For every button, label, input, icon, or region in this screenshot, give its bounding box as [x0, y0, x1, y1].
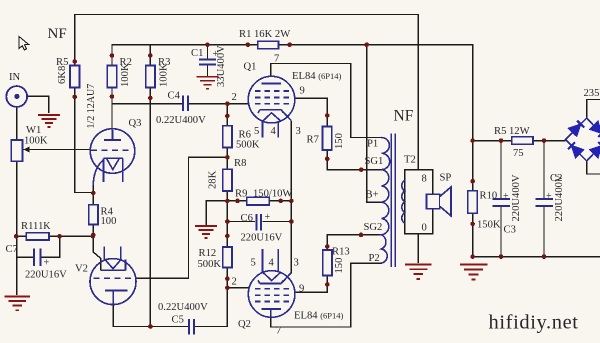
node R12 top pin — [225, 234, 230, 239]
pentode Q2 EL84 — [248, 249, 295, 317]
svg-text:9: 9 — [300, 86, 305, 97]
node ground rail C2 — [542, 254, 547, 259]
svg-text:150: 150 — [334, 133, 345, 149]
wire R5b left — [473, 140, 512, 142]
wire input jack to ground — [27, 96, 49, 113]
wire SG2 row to R13 top — [327, 235, 381, 250]
resistor R13 150 — [323, 250, 332, 276]
node V2 cathode junction — [91, 234, 96, 239]
resistor R3 100K — [146, 66, 155, 88]
wire Q1 plate pin7 to P1 — [271, 64, 382, 138]
wire R9 right pin — [269, 200, 291, 202]
node R13 top pin — [325, 244, 330, 249]
node C1 rail junction — [205, 42, 210, 47]
svg-text:150: 150 — [334, 258, 345, 274]
ground speaker secondary — [405, 264, 431, 280]
wire C1 top pin — [207, 45, 209, 59]
ground psu main — [460, 264, 488, 281]
wire C1 to ground — [207, 65, 209, 77]
wire R5b right to bridge — [533, 140, 566, 142]
capacitor C6 220U16V plates — [257, 214, 261, 231]
svg-text:33U400V: 33U400V — [216, 45, 227, 87]
wire bridge AC top — [587, 100, 600, 119]
node SG1 tap — [359, 167, 364, 172]
wire Q1 pin3 cathode column — [290, 120, 292, 273]
svg-text:R12: R12 — [199, 248, 217, 259]
node B+ R5b corner — [470, 138, 475, 143]
cursor — [19, 37, 29, 51]
wire B+ tap drop — [367, 45, 382, 203]
node C2 top junction — [542, 138, 547, 143]
svg-text:100K: 100K — [159, 63, 170, 87]
resistor R4 100 — [89, 205, 98, 225]
svg-text:P2: P2 — [369, 253, 380, 264]
wire R7 bottom to SG1 — [327, 150, 381, 170]
svg-text:R9: R9 — [235, 189, 247, 200]
node R3 bottom pin — [148, 96, 153, 101]
node Q3 cathode R5 junction — [91, 191, 96, 196]
potentiometer W1 wiper arrow — [24, 147, 30, 153]
resistor R7 150 — [323, 127, 332, 151]
wire B+ front rail — [112, 45, 473, 141]
capacitor C5 0.22U400V plates — [189, 319, 194, 335]
svg-text:Q1: Q1 — [244, 62, 257, 73]
node R5 top pin — [72, 59, 77, 64]
svg-text:235V: 235V — [584, 88, 600, 99]
svg-text:IN: IN — [9, 72, 21, 83]
wire C4 to Q1 grid pin2 — [189, 103, 249, 105]
resistor R1 16K 2W — [258, 41, 279, 49]
svg-text:P1: P1 — [367, 139, 378, 150]
svg-text:SG1: SG1 — [365, 156, 384, 167]
svg-text:8: 8 — [422, 174, 427, 185]
wire jack down through W1 to ground — [16, 107, 18, 140]
svg-text:220U16V: 220U16V — [25, 270, 67, 281]
wire R3 top pin — [149, 45, 151, 66]
resistor R5 6K8 — [70, 66, 79, 88]
svg-text:220U400V: 220U400V — [511, 174, 522, 221]
svg-text:R7: R7 — [307, 135, 319, 146]
wire R5 feedback to Q3 cathode — [75, 88, 94, 193]
node R11 left pin — [14, 234, 19, 239]
wire ground rail psu — [473, 256, 600, 258]
node R12 bottom pin — [225, 276, 230, 281]
svg-text:3: 3 — [294, 258, 299, 269]
wire R9 left pin — [227, 200, 246, 202]
svg-text:Q3: Q3 — [129, 118, 142, 129]
transformer T2 primary winding — [382, 134, 405, 268]
diode D1 top-left — [569, 125, 580, 136]
svg-text:R1 16K 2W: R1 16K 2W — [239, 29, 290, 40]
wire R2 bottom to Q3 plate — [111, 88, 113, 131]
svg-text:C1: C1 — [191, 48, 203, 59]
node C7 R11 junction — [57, 234, 62, 239]
resistor R2 100K — [107, 66, 116, 88]
node R9 right junction — [289, 199, 294, 204]
ground C1 — [197, 76, 219, 90]
diode D2 bottom-left — [572, 146, 583, 157]
svg-text:100K: 100K — [120, 63, 131, 87]
resistor R10 150K — [468, 191, 477, 213]
wire W1 bottom grounded column — [16, 161, 18, 295]
wire R4 bottom to cathode node — [92, 224, 94, 238]
capacitor C4 0.22U400V plates — [183, 96, 188, 111]
wire secondary 0 to ground — [417, 234, 419, 263]
svg-text:5: 5 — [251, 258, 256, 269]
node R13 bottom pin — [325, 282, 330, 287]
resistor R9 150/10W — [247, 197, 269, 205]
svg-text:220U400V: 220U400V — [554, 174, 565, 221]
resistor R5 12W 75 — [512, 137, 533, 145]
diode D4 bottom-right — [591, 146, 600, 157]
svg-text:+: + — [503, 191, 509, 202]
node R9 left junction — [225, 199, 230, 204]
wire R6 bottom R8 top — [226, 148, 228, 170]
wire R10 bottom — [472, 213, 474, 257]
svg-text:100: 100 — [101, 216, 117, 227]
svg-text:150K: 150K — [477, 220, 501, 231]
svg-text:100K: 100K — [24, 136, 48, 147]
svg-text:B+: B+ — [366, 190, 379, 201]
svg-text:1/2 12AU7: 1/2 12AU7 — [86, 84, 97, 129]
wire Q2 plate pin7 to P2 — [271, 263, 382, 327]
wire C6 left — [227, 221, 255, 223]
svg-text:220U16V: 220U16V — [241, 233, 283, 244]
transformer T2 secondary terminal box — [405, 170, 433, 234]
wire R3 bottom long drop to C5 node — [149, 88, 151, 327]
diode D3 top-right — [591, 122, 600, 133]
node SG2 tap — [359, 233, 364, 238]
wire R8 bottom to R12 top — [226, 191, 228, 247]
node R7 top pin — [325, 113, 330, 118]
wire bridge AC bottom — [587, 161, 600, 174]
wire R1 right B+ segment — [279, 44, 473, 46]
svg-text:2: 2 — [232, 277, 237, 288]
svg-text:Q2: Q2 — [238, 319, 251, 330]
node R1 left pin — [246, 42, 251, 47]
svg-text:0.22U400V: 0.22U400V — [156, 115, 206, 126]
node Q2 grid junction — [225, 286, 230, 291]
capacitor C7 220U16V plates — [34, 249, 40, 267]
resistor R11 1K — [26, 233, 49, 240]
node Q1 grid junction — [225, 101, 230, 106]
capacitor C2 220U400V plates — [535, 199, 553, 206]
wire R10 top pin — [472, 141, 474, 191]
svg-text:150/10W: 150/10W — [253, 189, 292, 200]
wire ground branch mid — [206, 201, 227, 226]
svg-text:R111K: R111K — [21, 221, 51, 232]
svg-text:C5: C5 — [172, 315, 184, 326]
svg-text:500K: 500K — [236, 140, 260, 151]
wire W1 wiper to Q3 grid — [24, 149, 91, 151]
node R2 bottom Q3 plate — [110, 94, 115, 99]
transformer T2 core — [391, 134, 395, 268]
capacitor C1 33U400V plates — [199, 60, 216, 65]
svg-text:V2: V2 — [75, 264, 88, 275]
node R5 bottom pin — [72, 95, 77, 100]
svg-text:C7: C7 — [6, 244, 18, 255]
svg-text:0.22U400V: 0.22U400V — [158, 302, 208, 313]
svg-text:9: 9 — [299, 284, 304, 295]
wire V2 plate to C5 — [113, 305, 188, 327]
triode V2 1/2 12AU7 — [90, 246, 136, 304]
wire V2 cathode bend — [93, 236, 101, 270]
svg-text:C4: C4 — [168, 91, 181, 102]
svg-text:EL84 (6P14): EL84 (6P14) — [292, 71, 341, 82]
wire R12 bottom to Q2 grid — [227, 268, 248, 288]
svg-text:W1: W1 — [26, 125, 41, 136]
wire R6 top pin — [226, 104, 228, 126]
svg-text:0: 0 — [422, 223, 427, 234]
svg-text:28K: 28K — [208, 170, 219, 189]
svg-text:7: 7 — [274, 54, 279, 65]
resistor R12 500K — [223, 247, 232, 268]
ground mid R9 — [195, 225, 217, 239]
node C6 right junction — [289, 219, 294, 224]
svg-text:+: + — [44, 258, 50, 269]
svg-text:3: 3 — [296, 126, 301, 137]
resistor R8 28K — [223, 169, 232, 191]
triode Q3 1/2 12AU7 — [90, 129, 135, 185]
svg-text:SP: SP — [440, 173, 452, 184]
pentode Q1 EL84 — [248, 76, 295, 137]
node R6 R8 junction — [225, 155, 230, 160]
svg-text:R13: R13 — [332, 247, 350, 258]
potentiometer W1 100K — [11, 140, 22, 161]
node ground rail R10 — [470, 254, 475, 259]
wire Q1 pin9 to R7 — [295, 98, 328, 126]
svg-text:SG2: SG2 — [364, 222, 383, 233]
node R2 top pin — [110, 53, 115, 58]
svg-text:500K: 500K — [198, 259, 222, 270]
wire C6 right — [263, 221, 292, 223]
wire C3 column — [500, 141, 502, 199]
svg-text:+: + — [265, 212, 271, 223]
node R1 right pin — [287, 42, 292, 47]
wire C7 left — [17, 256, 34, 258]
wire R11 left pin — [17, 235, 26, 237]
node R9 left pin — [235, 199, 240, 204]
svg-text:NF: NF — [48, 26, 67, 42]
svg-text:R10: R10 — [480, 191, 498, 202]
node C6 left junction — [225, 219, 230, 224]
wire R13 bottom to Q2 pin9 — [295, 276, 328, 293]
svg-text:R5 12W: R5 12W — [494, 126, 530, 137]
wire R6R8 junction to V2 grid — [135, 157, 228, 278]
node R10 top pin — [470, 179, 475, 184]
svg-text:C6: C6 — [241, 213, 253, 224]
svg-text:+: + — [546, 191, 552, 202]
svg-text:4: 4 — [271, 126, 277, 137]
node C5 left junction — [148, 324, 153, 329]
node B+ tap junction — [364, 42, 369, 47]
wire Q3 cathode to R4 — [92, 185, 94, 205]
node R7 bottom pin — [325, 157, 330, 162]
wire C5 right to Q2 grid node — [194, 288, 227, 327]
svg-text:7: 7 — [276, 326, 281, 337]
node R3 top pin — [148, 53, 153, 58]
ground input jack — [38, 114, 60, 128]
capacitor C3 220U400V plates — [492, 199, 510, 206]
input jack IN — [6, 86, 27, 107]
svg-text:2: 2 — [232, 92, 237, 103]
svg-text:hifidiy.net: hifidiy.net — [489, 312, 579, 334]
wire C2 bottom — [543, 207, 545, 257]
wire R11 right to V2 cathode node — [49, 235, 93, 237]
wire C3 bottom — [500, 207, 502, 257]
svg-text:NF: NF — [394, 108, 414, 125]
svg-text:4: 4 — [269, 258, 275, 269]
bridge rectifier — [566, 118, 600, 161]
speaker SP — [427, 187, 451, 216]
svg-text:C3: C3 — [504, 225, 516, 236]
wire C7 right riser — [41, 236, 60, 257]
svg-text:R8: R8 — [234, 158, 246, 169]
wire C2 column — [543, 141, 545, 199]
wire NF feedback top rail — [75, 15, 419, 170]
svg-text:75: 75 — [513, 148, 524, 159]
svg-text:T2: T2 — [404, 155, 416, 166]
node R6 top pin — [225, 114, 230, 119]
transformer T2 secondary winding — [402, 180, 405, 223]
svg-text:5: 5 — [254, 126, 259, 137]
node R9 right pin — [278, 199, 283, 204]
wire Q3 plate node to C4 — [112, 103, 183, 105]
resistor R6 500K — [223, 126, 232, 148]
ground bottom left — [5, 296, 30, 312]
svg-text:6K8: 6K8 — [57, 66, 68, 84]
node C3 top junction — [499, 138, 504, 143]
node R10 bottom pin — [470, 222, 475, 227]
svg-text:EL84 (6P14): EL84 (6P14) — [294, 311, 343, 322]
node R4 bottom pin — [91, 233, 96, 238]
node ground rail C3 — [499, 254, 504, 259]
